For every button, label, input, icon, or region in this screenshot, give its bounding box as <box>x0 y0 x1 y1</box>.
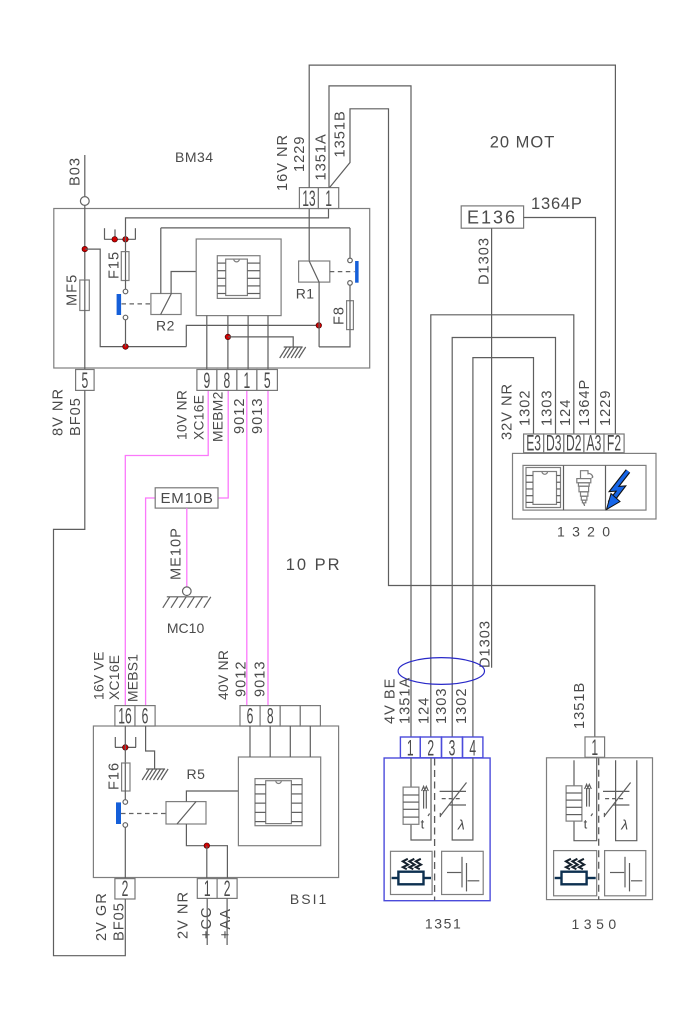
wire conn2 blank1 to micro <box>289 726 291 757</box>
wire +CC supply <box>206 898 208 945</box>
svg-text:1302: 1302 <box>518 390 534 426</box>
svg-text:E3: E3 <box>526 430 541 455</box>
wire 9013 BM34 pin5 to BSI pin8 <box>267 390 269 705</box>
ground node MC10 <box>183 587 192 596</box>
svg-text:MF5: MF5 <box>65 274 81 306</box>
microcontroller U1 <box>217 256 260 299</box>
heater resistor icon box 1350 <box>554 851 597 896</box>
svg-text:1: 1 <box>407 736 414 761</box>
battery symbol 1351 <box>447 872 461 874</box>
svg-text:3: 3 <box>449 736 456 761</box>
svg-text:40V NR: 40V NR <box>216 650 231 700</box>
pin 2 of BSI1 left <box>115 879 135 899</box>
pin 1 of 1350 <box>585 737 605 757</box>
pin 5 of BM34 <box>76 370 95 391</box>
svg-text:1351B: 1351B <box>333 110 349 157</box>
svg-text:10 PR: 10 PR <box>286 556 342 574</box>
wire R5 coil to micro <box>186 791 238 802</box>
svg-text:t: t <box>421 817 425 832</box>
battery icon box 1350 <box>605 851 646 896</box>
svg-text:t: t <box>584 817 588 832</box>
svg-text:9: 9 <box>204 368 211 393</box>
svg-text:R1: R1 <box>296 286 315 302</box>
chip icon in 1320 <box>526 468 561 508</box>
contact upper F15 <box>123 289 128 294</box>
wire pin8 branch to ground <box>228 337 293 347</box>
wire 124 1351-pin2 to D2 <box>431 315 574 737</box>
wire 1229 pin13 to F2 <box>309 65 615 434</box>
ground branch BSI pin6 <box>146 726 155 769</box>
heater circuit 1351 <box>410 758 412 787</box>
svg-text:MEBM2: MEBM2 <box>211 391 226 442</box>
pin 4 of 1351 <box>463 737 483 758</box>
wire chip to pin 9 <box>206 316 208 370</box>
svg-text:9012: 9012 <box>234 661 250 697</box>
svg-text:1229: 1229 <box>598 390 614 426</box>
pin 2 of 1351 <box>420 737 441 758</box>
svg-text:F15: F15 <box>107 251 123 279</box>
wire chip to pin 1 <box>247 316 249 370</box>
sensor 1350 box <box>547 758 653 900</box>
wire F8 to contact <box>349 285 351 301</box>
svg-text:R5: R5 <box>187 766 206 782</box>
svg-text:+AA: +AA <box>218 908 234 939</box>
dashed link F15 contact to R2 <box>122 303 151 305</box>
wire D1303 E136 down to splice <box>491 228 493 668</box>
lightning bolt icon in 1320 <box>610 471 628 503</box>
micro module box in BSI1 <box>238 757 320 846</box>
splice symbol at BSI pin16 <box>115 746 136 748</box>
svg-text:8V NR: 8V NR <box>51 388 67 436</box>
dashed link F16 to R5 <box>121 813 166 815</box>
wire F16 to contact <box>124 791 126 800</box>
svg-text:1350: 1350 <box>572 916 621 932</box>
wire contact to pin2 <box>124 827 126 878</box>
wire to R1 output net <box>186 325 318 346</box>
svg-text:A3: A3 <box>587 430 602 455</box>
wire +AA supply <box>226 898 228 945</box>
heater resistor icon box 1351 <box>391 851 433 894</box>
ground in BSI1 <box>146 768 165 770</box>
pin 1 of BM34 bottom <box>237 370 257 391</box>
svg-text:5: 5 <box>81 368 88 393</box>
wire 9012 BM34 pin1 to BSI pin6 <box>246 390 248 705</box>
svg-text:4V BE: 4V BE <box>383 678 399 724</box>
fuse MF5 <box>80 280 90 311</box>
lambda circuit 1351 <box>452 758 473 840</box>
connector bar blue F16 <box>116 802 121 824</box>
contact lower F16 <box>123 823 128 828</box>
svg-text:1303: 1303 <box>434 688 450 724</box>
heater arrows 1351 <box>423 790 425 809</box>
pin 1 of BSI1 bottom <box>197 879 217 899</box>
svg-text:9012: 9012 <box>232 398 248 434</box>
svg-text:6: 6 <box>247 704 254 729</box>
lambda circuit 1350 <box>616 760 637 840</box>
node B03 <box>84 155 86 197</box>
pin 9 of BM34 <box>197 370 217 391</box>
pin 1 of 1351 <box>400 737 420 758</box>
wire conn2 blank2 to micro <box>309 726 311 757</box>
connector bar blue R1 <box>355 261 359 283</box>
wire pin8 to EM10B <box>218 390 228 498</box>
wire contact to junction <box>125 320 127 347</box>
pin blank1 of BSI1 conn2 <box>280 706 300 726</box>
ground in BM34 <box>284 346 303 348</box>
wire 1364P E136 to A3 <box>524 218 596 435</box>
svg-text:D3: D3 <box>546 430 562 455</box>
wire 1303 1351-pin3 to D3 <box>452 338 555 738</box>
svg-text:1303: 1303 <box>540 390 556 426</box>
svg-text:1364P: 1364P <box>531 195 583 213</box>
wire chip to pin 8 <box>227 316 229 370</box>
battery icon box 1351 <box>442 851 484 894</box>
svg-text:BM34: BM34 <box>175 149 214 165</box>
pin blank2 of BSI1 conn2 <box>300 706 320 726</box>
wire junction to pin1 <box>206 846 208 879</box>
divider dashed 1351 <box>434 759 436 901</box>
svg-text:λ: λ <box>620 817 628 833</box>
svg-text:1351A: 1351A <box>314 133 330 180</box>
svg-text:1: 1 <box>204 876 211 901</box>
sensor 1351 box <box>384 758 490 901</box>
svg-text:1320: 1320 <box>557 524 617 540</box>
wire F15 to contact <box>125 281 127 290</box>
svg-text:BSI1: BSI1 <box>290 891 328 907</box>
pin 6 of BSI1 <box>135 706 155 726</box>
svg-text:1351: 1351 <box>425 916 463 932</box>
pin 2 of BSI1 bottom <box>217 879 237 899</box>
relay R5 <box>166 802 206 824</box>
wire R5 output <box>186 824 227 879</box>
svg-text:MEBS1: MEBS1 <box>126 654 141 702</box>
microcontroller U2 <box>255 779 302 826</box>
lambda symbol 1350 <box>603 790 629 792</box>
svg-text:8: 8 <box>267 704 274 729</box>
svg-text:1364P: 1364P <box>577 379 593 426</box>
wire pin1 feed to F15 <box>126 206 329 252</box>
heater arrows 1350 <box>586 788 588 807</box>
svg-text:1: 1 <box>325 186 332 211</box>
pin E3 of 1320 <box>524 434 544 453</box>
splice box EM10B <box>155 488 218 508</box>
svg-text:MC10: MC10 <box>167 620 205 636</box>
connector E136 <box>461 206 523 228</box>
dashed link R1 to contact <box>330 271 355 273</box>
wire pin16 to F16 <box>124 726 126 763</box>
pin 1 of BM34 top <box>318 188 338 209</box>
svg-text:5: 5 <box>264 368 271 393</box>
svg-text:1351A: 1351A <box>398 677 414 724</box>
svg-text:2: 2 <box>224 876 231 901</box>
svg-text:F2: F2 <box>607 430 621 455</box>
contact upper F16 <box>123 800 128 805</box>
fuse F8 <box>347 301 354 330</box>
svg-text:124: 124 <box>558 399 574 426</box>
fuse F15 <box>121 252 129 281</box>
contact lower F15 <box>123 315 128 320</box>
wire MF5 to pin 5 <box>84 311 86 370</box>
svg-text:9013: 9013 <box>250 398 266 434</box>
micro module box in BM34 <box>196 239 281 316</box>
splice symbol with junctions <box>104 238 136 240</box>
ECU box BSI1 <box>93 726 338 878</box>
svg-text:8: 8 <box>224 368 231 393</box>
wire 1351B pin1 to 1350 <box>330 109 595 737</box>
divider dashed 1350 <box>598 758 600 899</box>
wire EM10B to BSI pin6 <box>146 498 156 706</box>
svg-text:2: 2 <box>427 736 434 761</box>
pin 5 of BM34 bottom <box>257 370 278 391</box>
svg-text:λ: λ <box>457 817 465 833</box>
relay R1 <box>308 206 310 261</box>
heater circuit 1350 <box>573 760 575 786</box>
heater element 1351 <box>403 787 419 824</box>
wire MEBM2 pin9 to BSI pin16 <box>125 390 208 705</box>
svg-text:B03: B03 <box>68 157 84 186</box>
wire 1302 1351-pin4 to E3 <box>473 358 534 737</box>
svg-text:D1303: D1303 <box>477 237 493 285</box>
svg-text:XC16E: XC16E <box>192 395 207 440</box>
svg-text:9013: 9013 <box>253 661 269 697</box>
pin 8 of BSI1 conn2 <box>260 706 280 726</box>
unit 1320 inner box <box>523 465 646 510</box>
junction F15 bottom <box>123 344 129 350</box>
svg-text:E136: E136 <box>467 208 517 228</box>
svg-text:16: 16 <box>118 704 132 729</box>
junction on B03 wire <box>82 246 88 252</box>
fuse F16 <box>122 763 130 791</box>
junction pin8 ground branch <box>225 334 231 340</box>
wire horizontal to R1 contact <box>161 227 350 229</box>
pin D3 of 1320 <box>544 434 564 453</box>
pin 13 of BM34 <box>299 188 318 209</box>
connector bar blue F15 <box>117 294 122 315</box>
svg-text:6: 6 <box>142 704 149 729</box>
wire R2 coil up <box>160 228 162 294</box>
svg-text:1351B: 1351B <box>572 682 588 729</box>
wire contact up <box>349 228 351 258</box>
svg-text:EM10B: EM10B <box>161 490 214 507</box>
svg-text:1: 1 <box>591 735 598 760</box>
relay R2 <box>151 294 181 315</box>
wire B03 to MF5 <box>84 205 86 280</box>
svg-text:ME10P: ME10P <box>169 527 185 580</box>
svg-text:4: 4 <box>469 736 476 761</box>
svg-text:16V VE: 16V VE <box>92 651 107 700</box>
splice ellipse D1303 <box>398 658 484 685</box>
wire branch from B03 junction to relay net <box>85 249 187 347</box>
wire R1 output down <box>318 282 320 347</box>
svg-text:XC16E: XC16E <box>107 655 122 700</box>
wire chip to pin 5 <box>267 316 269 370</box>
wire 1351A pin1 to 1351 <box>329 86 411 737</box>
svg-text:20 MOT: 20 MOT <box>490 134 556 152</box>
lambda symbol 1351 <box>440 790 466 792</box>
svg-text:32V NR: 32V NR <box>500 383 516 440</box>
svg-text:16V NR: 16V NR <box>275 134 291 191</box>
heater resistor 1351 <box>398 872 423 885</box>
heater element 1350 <box>566 786 582 821</box>
wire R2 second terminal to micro box <box>171 272 196 294</box>
svg-text:D1303: D1303 <box>478 620 494 668</box>
pin 8 of BM34 <box>217 370 237 391</box>
heater resistor 1350 <box>562 872 587 885</box>
wire BF05 BSI pin2 to BM34 pin5 <box>54 390 126 955</box>
pin 16 of BSI1 <box>115 706 135 726</box>
wire ME10P to ground <box>186 508 188 587</box>
pin F2 of 1320 <box>604 434 624 453</box>
pin D2 of 1320 <box>564 434 584 453</box>
contact upper R1 <box>348 258 353 263</box>
wire R1 to F8 bottom <box>319 330 350 347</box>
svg-text:R2: R2 <box>156 318 175 334</box>
svg-text:124: 124 <box>417 697 433 724</box>
svg-text:2V GR: 2V GR <box>94 892 110 941</box>
svg-text:D2: D2 <box>566 430 581 455</box>
svg-text:10V NR: 10V NR <box>175 390 190 440</box>
pin A3 of 1320 <box>584 434 604 453</box>
ECU box BM34 <box>54 209 370 369</box>
unit 1320 box <box>513 453 657 519</box>
svg-text:1: 1 <box>244 368 251 393</box>
junction on R1 output <box>316 323 322 329</box>
svg-text:F8: F8 <box>332 306 348 325</box>
svg-text:1229: 1229 <box>292 136 308 172</box>
wire conn2 pin6 to micro <box>249 726 251 757</box>
wire conn2 pin8 to micro <box>269 726 271 757</box>
pin 6 of BSI1 conn2 <box>240 706 260 726</box>
injector icon in 1320 <box>577 471 593 506</box>
pin 3 of 1351 <box>442 737 463 758</box>
svg-text:13: 13 <box>302 186 316 211</box>
contact lower R1 <box>348 281 353 286</box>
svg-text:2: 2 <box>122 876 129 901</box>
svg-text:BF05: BF05 <box>68 397 84 436</box>
battery symbol 1350 <box>610 872 624 874</box>
svg-text:F16: F16 <box>107 762 123 790</box>
svg-text:2V NR: 2V NR <box>176 891 192 939</box>
junction R5 output to pin1 <box>204 843 210 849</box>
svg-text:1302: 1302 <box>454 688 470 724</box>
